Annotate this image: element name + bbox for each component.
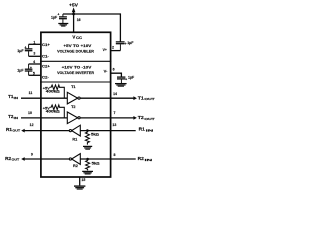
resistor 400k T1	[50, 85, 64, 98]
wire +5V rail to C3	[63, 14, 121, 42]
wire R2 input	[80, 158, 135, 160]
svg-text:V+: V+	[103, 48, 108, 52]
svg-text:16: 16	[77, 18, 81, 22]
svg-text:R1: R1	[72, 137, 77, 141]
svg-text:14: 14	[113, 92, 117, 96]
arrow R2OUT	[21, 157, 25, 161]
wire +5V vertical into pin 16	[73, 10, 75, 33]
svg-text:C2+: C2+	[42, 65, 51, 69]
svg-text:IN: IN	[145, 158, 153, 162]
wire pin6 V-	[111, 73, 122, 76]
svg-text:5kΩ: 5kΩ	[91, 133, 99, 137]
ground below R1 resistor	[83, 146, 92, 149]
op-amp receiver R2	[69, 158, 71, 160]
pin 15 GND stub	[79, 177, 81, 185]
arrow R1OUT	[21, 129, 25, 133]
svg-text:11: 11	[29, 91, 33, 95]
svg-text:C1-: C1-	[42, 54, 50, 58]
svg-text:+: +	[57, 13, 59, 17]
svg-text:C1+: C1+	[42, 43, 51, 47]
wire pin2 V+	[111, 50, 121, 52]
svg-text:5kΩ: 5kΩ	[92, 162, 100, 166]
ground below R2 resistor	[82, 171, 93, 174]
capacitor C2 1uF	[25, 64, 33, 75]
resistor 5k R1	[85, 131, 89, 144]
capacitor C3 1uF	[116, 42, 125, 51]
op-amp receiver R1	[69, 130, 71, 132]
wire pin4	[29, 63, 41, 65]
wire R2 output	[24, 158, 70, 160]
svg-text:1µF: 1µF	[17, 49, 24, 53]
svg-text:VOLTAGE INVERTER: VOLTAGE INVERTER	[57, 70, 94, 75]
svg-text:IN: IN	[146, 128, 154, 132]
svg-text:IN: IN	[14, 96, 18, 100]
svg-text:6: 6	[113, 67, 115, 71]
svg-text:2: 2	[112, 46, 114, 50]
wire pin1	[29, 43, 41, 45]
resistor 400k T2	[50, 105, 64, 118]
svg-text:R2: R2	[73, 164, 78, 168]
svg-text:10: 10	[28, 111, 32, 115]
capacitor C4 1uF	[117, 77, 125, 83]
capacitor C1 1uF	[25, 44, 33, 56]
IC box MAX232	[41, 32, 111, 177]
svg-text:CC: CC	[76, 36, 83, 40]
ground GND pin15	[74, 186, 85, 189]
svg-text:400kΩ: 400kΩ	[46, 90, 61, 94]
arrow T1OUT	[133, 96, 137, 100]
node junction R1 resistor	[86, 129, 89, 132]
wire pin3	[29, 55, 41, 57]
svg-text:13: 13	[112, 123, 116, 127]
svg-text:400kΩ: 400kΩ	[46, 110, 61, 114]
svg-text:15: 15	[81, 178, 85, 182]
svg-text:3: 3	[33, 52, 35, 56]
svg-text:+10V TO -10V: +10V TO -10V	[62, 64, 92, 69]
svg-text:T2: T2	[71, 105, 75, 109]
divider line 1	[40, 60, 111, 62]
divider line 2	[40, 81, 111, 83]
wire T2IN	[21, 117, 67, 119]
wire T1IN	[21, 97, 67, 99]
svg-text:VOLTAGE DOUBLER: VOLTAGE DOUBLER	[57, 48, 94, 53]
svg-text:OUT: OUT	[144, 97, 155, 101]
ground below C4	[115, 84, 127, 87]
capacitor C5 1uF bypass	[59, 14, 67, 23]
wire pin5	[29, 74, 41, 76]
svg-text:C2-: C2-	[42, 75, 50, 79]
svg-text:OUT: OUT	[144, 117, 155, 121]
svg-text:+: +	[125, 77, 127, 81]
arrow T2OUT	[133, 116, 137, 120]
svg-text:OUT: OUT	[12, 129, 20, 133]
svg-text:+5V TO +10V: +5V TO +10V	[63, 43, 91, 48]
svg-text:OUT: OUT	[12, 158, 20, 162]
svg-text:V: V	[72, 34, 75, 39]
node junction R2 resistor	[86, 158, 89, 161]
svg-text:9: 9	[31, 152, 33, 156]
svg-text:V-: V-	[104, 69, 109, 73]
svg-text:T1: T1	[71, 85, 75, 89]
svg-text:IN: IN	[14, 116, 18, 120]
svg-text:1µF: 1µF	[51, 15, 58, 19]
svg-text:1µF: 1µF	[17, 68, 24, 72]
svg-text:7: 7	[114, 111, 116, 115]
wire R1 output	[24, 130, 70, 132]
svg-text:8: 8	[114, 153, 116, 157]
ground below C5	[58, 24, 68, 27]
svg-text:1µF: 1µF	[127, 41, 134, 45]
svg-text:+: +	[30, 66, 32, 70]
wire T2 output	[80, 117, 134, 119]
resistor 5k R2	[86, 160, 90, 171]
wire T1 output	[80, 97, 134, 99]
wire R1 input	[80, 130, 135, 132]
node +5V arrow	[72, 7, 76, 12]
svg-text:12: 12	[30, 123, 34, 127]
svg-text:+5V: +5V	[69, 3, 78, 8]
svg-text:1µF: 1µF	[128, 76, 135, 80]
node junction +5V rail	[72, 13, 75, 16]
svg-text:+: +	[24, 46, 26, 50]
